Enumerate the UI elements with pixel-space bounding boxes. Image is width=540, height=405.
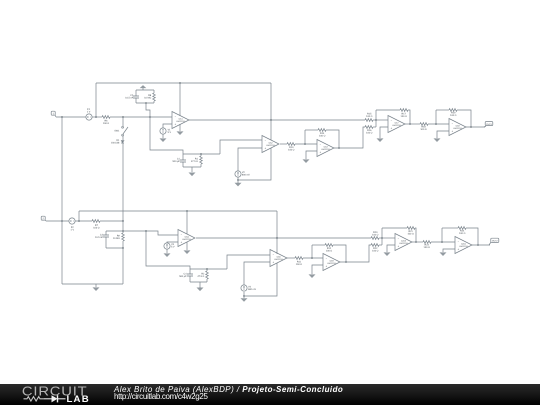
wire R10 to OA3 — [295, 143, 317, 145]
junction B5 output — [477, 244, 479, 246]
wire OA5 feedback top — [436, 109, 449, 111]
resistor R8 — [144, 90, 155, 103]
junction C3 top — [122, 230, 124, 232]
op-amp OA2 — [262, 136, 279, 153]
svg-text:+: + — [181, 241, 183, 244]
logo diode — [44, 398, 52, 400]
junction B4 output — [415, 241, 417, 243]
svg-text:OA1: OA1 — [179, 117, 184, 120]
junction C2R8 branch — [149, 116, 151, 118]
wire node to C4R2 — [146, 231, 190, 269]
svg-text:10 MΩ: 10 MΩ — [113, 237, 120, 240]
wire B4 feedback top — [382, 227, 407, 229]
svg-text:100 Ω: 100 Ω — [407, 232, 414, 235]
ground below OA1 — [177, 131, 184, 135]
wire OA4 plus to ground — [380, 127, 388, 138]
ground below V4 — [241, 296, 248, 302]
wire left rail — [61, 117, 63, 284]
resistor R22 — [371, 244, 379, 253]
svg-text:1N4148: 1N4148 — [111, 142, 120, 145]
resistor R2 — [197, 269, 208, 282]
svg-text:5 V: 5 V — [171, 246, 175, 249]
svg-text:100 Ω: 100 Ω — [366, 115, 373, 118]
wire B1 bottom pin — [186, 242, 188, 250]
svg-text:10 MΩ: 10 MΩ — [144, 97, 151, 100]
switch SW1 — [114, 126, 128, 136]
svg-text:−: − — [398, 237, 400, 240]
svg-text:+: + — [265, 147, 267, 150]
svg-text:OA11: OA11 — [461, 242, 467, 245]
wire OA1 plus to V1 — [163, 124, 172, 128]
junction rail to OA2 supply — [270, 119, 272, 121]
wire B3 feedback riser — [311, 245, 313, 258]
svg-text:+: + — [326, 265, 328, 268]
op-amp OA1 — [172, 112, 189, 129]
junction left-rail top — [61, 116, 63, 118]
wire top rail — [96, 82, 271, 84]
svg-text:+: + — [458, 248, 460, 251]
op-amp OA6 — [178, 230, 195, 247]
wire C2R8 top edge — [136, 89, 154, 91]
wire to switch SW1 — [122, 117, 124, 126]
svg-text:SW1: SW1 — [114, 130, 120, 133]
wire OA5 feedback riser — [435, 110, 437, 124]
resistor R7 — [92, 220, 100, 230]
svg-text:OUT1: OUT1 — [486, 123, 492, 126]
wire V2 node to OA2 bottom pin — [238, 148, 271, 180]
diode D1 — [111, 139, 124, 144]
junction OA1 supply pin — [179, 82, 181, 84]
wire V4 node to B2 bottom pin — [244, 263, 277, 296]
junction OA3 output — [338, 147, 340, 149]
junction OA4 output — [409, 123, 411, 125]
ground below V2 — [235, 180, 242, 186]
resistor R6 — [102, 116, 110, 125]
voltage source V1 — [160, 128, 172, 134]
wire C2R8 block stem — [146, 103, 150, 117]
wire D1 down to IN2 line — [122, 143, 124, 221]
svg-text:−: − — [458, 240, 460, 243]
svg-text:10.5 nF: 10.5 nF — [125, 97, 133, 100]
wire riser to rail2 — [78, 211, 80, 221]
resistor R20 — [371, 231, 379, 240]
wire B1 output line — [196, 237, 371, 239]
wire B4 output — [412, 241, 423, 243]
svg-text:LMP2231: LMP2231 — [459, 245, 468, 248]
svg-text:−: − — [326, 257, 328, 260]
capacitor C1 — [173, 154, 186, 167]
junction bottom-rail riser — [78, 220, 80, 222]
op-amp OA7 — [270, 250, 287, 267]
junction R1 top — [200, 153, 202, 155]
svg-text:LMP2231: LMP2231 — [321, 148, 330, 151]
op-amp OA4 — [388, 116, 405, 133]
wire R14 to output — [326, 130, 339, 148]
svg-text:−: − — [265, 139, 267, 142]
resistor R19 — [449, 109, 457, 118]
svg-text:5 V: 5 V — [168, 131, 172, 134]
junction B3 output — [345, 261, 347, 263]
svg-text:OA5: OA5 — [277, 255, 282, 258]
wire R17 to output — [408, 110, 410, 124]
junction C3 bottom — [122, 247, 124, 249]
svg-text:−: − — [320, 143, 322, 146]
wire B1 plus to V3 — [167, 242, 178, 243]
svg-text:100 Ω: 100 Ω — [103, 122, 110, 125]
wire bottom rail — [62, 283, 123, 285]
resistor R21 — [407, 227, 415, 236]
svg-text:1 V: 1 V — [87, 111, 91, 114]
wire R6 to OA1 inverting input — [110, 116, 172, 118]
wire B5 feedback riser — [441, 228, 443, 242]
junction rail2 to B2 supply — [276, 237, 278, 239]
resistor R1 — [191, 154, 202, 167]
svg-text:500 µF: 500 µF — [179, 275, 187, 278]
op-amp OA5 — [449, 119, 466, 136]
svg-text:OA4: OA4 — [185, 235, 190, 238]
wire B4 plus to ground — [387, 245, 395, 252]
ground below C4R2 — [197, 282, 204, 291]
wire OA3 output to R16 — [334, 127, 365, 148]
resistor R9 — [113, 233, 124, 241]
op-amp OA10 — [455, 237, 472, 254]
wire B5 feedback top — [442, 227, 458, 229]
junction OA5 node — [435, 123, 437, 125]
svg-text:LAB: LAB — [67, 394, 90, 405]
svg-text:−: − — [181, 233, 183, 236]
svg-text:OA7: OA7 — [395, 121, 400, 124]
junction B1 supply pin — [186, 210, 188, 212]
wire R7 to vertical — [100, 220, 123, 222]
svg-text:+: + — [452, 130, 454, 133]
wire OA2 plus to V2 — [238, 148, 262, 171]
svg-text:−: − — [175, 115, 177, 118]
voltage source E2 — [69, 218, 75, 231]
wire C1R1 top edge — [183, 153, 220, 155]
wire R9 to block bottom — [122, 241, 124, 248]
svg-text:LMP2231: LMP2231 — [327, 262, 336, 265]
wire E2 to R7 — [75, 220, 92, 222]
junction left-rail bottom — [61, 220, 63, 222]
wire V3 to ground — [166, 249, 168, 253]
wire rail3 to B1 minus — [123, 231, 178, 235]
wire IN1 to E1 — [56, 116, 86, 118]
ground below V3 — [164, 253, 171, 257]
resistor R11 — [295, 257, 303, 266]
wire rail2 drop — [276, 211, 278, 238]
svg-text:100 Ω: 100 Ω — [424, 246, 431, 249]
svg-text:LMP2231: LMP2231 — [182, 238, 191, 241]
wire C1R1 node to OA2 minus — [220, 140, 262, 154]
wire C4R2 top edge — [190, 268, 227, 270]
wire C3 bottom edge — [106, 247, 123, 249]
junction top-rail riser — [95, 116, 97, 118]
svg-text:OA3: OA3 — [324, 145, 329, 148]
wire OA4 output — [405, 123, 420, 125]
ground below V1 — [160, 138, 167, 142]
ground below C1R1 — [189, 167, 196, 176]
svg-text:OA8: OA8 — [456, 124, 461, 127]
wire riser to top rail — [95, 83, 97, 117]
svg-text:10.5 nF: 10.5 nF — [95, 236, 103, 239]
svg-text:+: + — [273, 261, 275, 264]
wire vertical to bottom rail — [122, 248, 124, 284]
node IN1 terminal tag — [51, 111, 56, 117]
wire OA1 supply pin — [179, 83, 181, 116]
wire B2 plus to V4 — [244, 262, 270, 285]
resistor R16 — [365, 126, 373, 135]
wire C3 top edge — [106, 230, 123, 232]
node OUT2 terminal tag — [489, 238, 499, 245]
wire R24 to output — [466, 228, 478, 245]
junction switch branch — [122, 116, 124, 118]
wire R18 to OA5 — [428, 123, 449, 125]
wire to R9 — [122, 221, 124, 233]
svg-text:1 V: 1 V — [71, 228, 75, 231]
wire OA1 output line — [189, 119, 365, 121]
wire switch to diode D1 — [122, 136, 124, 140]
svg-text:LMP2231: LMP2231 — [399, 242, 408, 245]
ground below B1 — [184, 250, 191, 254]
svg-text:OA10: OA10 — [401, 239, 407, 242]
svg-text:−: − — [273, 253, 275, 256]
wire B4 node riser — [381, 228, 383, 245]
svg-text:+: + — [398, 245, 400, 248]
wire rail2 — [79, 210, 277, 212]
svg-text:100 Ω: 100 Ω — [420, 128, 427, 131]
svg-text:+: + — [391, 127, 393, 130]
wire OA4 node riser — [375, 110, 377, 127]
junction OA4 summing node — [375, 119, 377, 121]
wire C4R2 bottom edge — [190, 281, 207, 283]
ground below B3 plus — [309, 274, 316, 278]
wire B5 plus to ground — [443, 249, 455, 252]
junction B4 summing node — [381, 237, 383, 239]
wire OA2 supply pin — [270, 120, 272, 140]
wire C1R1 bottom edge — [183, 166, 201, 168]
svg-text:500 µF: 500 µF — [173, 160, 181, 163]
wire R23 to B5 — [431, 241, 455, 243]
svg-text:100 Ω: 100 Ω — [459, 232, 466, 235]
wire B5 output to OUT2 — [472, 244, 490, 246]
junction OA5 output — [470, 126, 472, 128]
svg-text:100 Ω: 100 Ω — [326, 249, 333, 252]
svg-text:LMP2231: LMP2231 — [392, 124, 401, 127]
svg-text:OA2: OA2 — [269, 141, 274, 144]
junction V4 ground node — [243, 295, 245, 297]
svg-text:100 Ω: 100 Ω — [93, 227, 100, 230]
wire OA1 bottom pin — [179, 124, 181, 131]
wire node to C1R1 — [150, 117, 183, 154]
svg-text:600 mV: 600 mV — [242, 173, 250, 176]
wire rail drop to output line — [270, 83, 272, 120]
resistor R17 — [400, 109, 408, 118]
voltage source E1 — [86, 108, 92, 120]
svg-text:LMP2231: LMP2231 — [274, 258, 283, 261]
svg-text:100 Ω: 100 Ω — [372, 249, 379, 252]
svg-text:100 Ω: 100 Ω — [366, 132, 373, 135]
resistor R12 — [325, 244, 333, 253]
resistor R15 — [365, 113, 373, 122]
resistor R18 — [420, 123, 428, 131]
op-amp OA3 — [317, 140, 334, 157]
footer bar — [0, 384, 540, 405]
wire V2 to ground junction — [237, 177, 239, 180]
wire OA3 feedback riser — [304, 130, 306, 144]
wire B2 supply pin — [276, 238, 278, 254]
junction R2 top — [206, 268, 208, 270]
svg-text:100 Ω: 100 Ω — [296, 263, 303, 266]
wire R15 to OA4 minus — [373, 119, 388, 121]
junction C4R2 branch — [145, 230, 147, 232]
ground below bottom rail — [93, 284, 100, 291]
voltage source V2 — [235, 171, 250, 177]
wire R21 to output — [415, 228, 416, 242]
svg-text:OUT2: OUT2 — [492, 240, 498, 243]
wire C2R8 bottom edge — [136, 102, 154, 104]
wire IN2 to E2 — [46, 220, 69, 222]
wire R11 to B3 — [303, 257, 323, 259]
wire OA3 feedback top — [305, 129, 318, 131]
wire V1 to ground — [162, 134, 164, 138]
wire E1 to R6 — [92, 116, 102, 118]
svg-text:100 Ω: 100 Ω — [319, 134, 326, 137]
op-amp OA8 — [323, 254, 340, 271]
capacitor C2 — [125, 90, 139, 103]
svg-text:LMP2231: LMP2231 — [266, 144, 275, 147]
CircuitLab logo — [0, 384, 110, 405]
wire B3 feedback top — [312, 244, 325, 246]
wire B3 plus to ground — [312, 265, 323, 274]
wire B3 output to R22 — [340, 245, 371, 262]
logo resistor zigzag — [24, 397, 45, 401]
svg-text:LMP2231: LMP2231 — [176, 120, 185, 123]
wire R12 to output — [333, 245, 346, 262]
node OUT1 terminal tag — [484, 122, 493, 127]
junction B3 feedback node — [311, 257, 313, 259]
voltage source V4 — [241, 285, 257, 291]
junction C2R8 bottom — [145, 102, 147, 104]
ground below OA5 plus — [434, 138, 441, 142]
svg-text:LMP2231: LMP2231 — [453, 127, 462, 130]
ground below B5 plus — [440, 252, 447, 256]
junction V2 ground node — [237, 179, 239, 181]
svg-text:100 Ω: 100 Ω — [450, 114, 457, 117]
svg-text:100 Ω: 100 Ω — [401, 115, 408, 118]
svg-text:600 mV: 600 mV — [248, 288, 256, 291]
resistor R10 — [287, 143, 295, 152]
junction B5 node — [441, 241, 443, 243]
junction IN2 vertical — [122, 220, 124, 222]
svg-text:47.5 Ω: 47.5 Ω — [191, 160, 198, 163]
wire R16 to OA4 node — [373, 126, 376, 128]
wire OA5 plus to ground — [437, 131, 449, 138]
ground below B4 plus — [384, 252, 391, 256]
wire OA4 feedback top — [376, 109, 400, 111]
wire OA3 plus to ground — [306, 151, 317, 159]
svg-text:+: + — [175, 123, 177, 126]
wire C4R2 node to B2 minus — [227, 255, 270, 269]
op-amp OA9 — [395, 234, 412, 251]
voltage source V3 — [164, 243, 175, 249]
svg-text:−: − — [391, 119, 393, 122]
resistor R23 — [423, 241, 431, 249]
node IN2 terminal tag — [41, 216, 46, 221]
wire R19 to output — [457, 110, 471, 127]
wire R20 to B4 minus — [379, 237, 395, 239]
resistor R24 — [458, 227, 466, 235]
svg-text:+: + — [320, 151, 322, 154]
ground below OA4 plus — [377, 138, 384, 142]
resistor R14 — [318, 129, 326, 138]
ground below OA3 plus — [303, 159, 310, 163]
junction OA3 feedback node — [304, 143, 306, 145]
capacitor C4 — [179, 269, 193, 282]
svg-text:100 Ω: 100 Ω — [288, 148, 295, 151]
wire B1 supply pin — [186, 211, 188, 234]
svg-text:100 Ω: 100 Ω — [372, 233, 379, 236]
wire R22 to B4 node — [379, 244, 382, 246]
ground above C2R8 block — [140, 85, 147, 90]
svg-text:−: − — [452, 122, 454, 125]
capacitor C3 — [95, 231, 109, 248]
wire B2 output — [286, 257, 295, 259]
svg-text:OA9: OA9 — [330, 259, 335, 262]
wire OA5 output to OUT1 — [466, 126, 485, 128]
wire V4 to ground junction — [243, 292, 245, 296]
svg-text:47.5 Ω: 47.5 Ω — [197, 275, 204, 278]
wire OA2 output — [280, 143, 287, 145]
